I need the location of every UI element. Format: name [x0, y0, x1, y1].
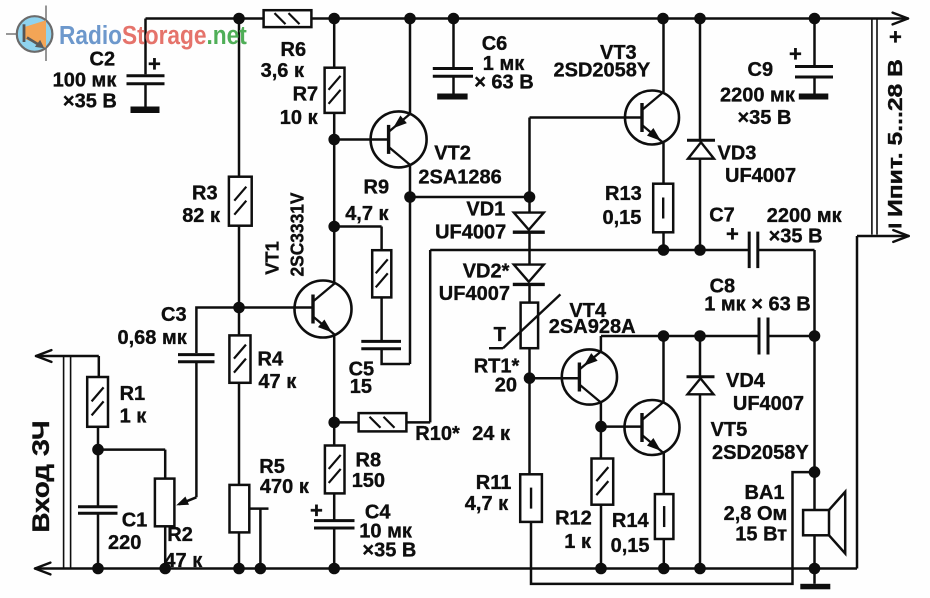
svg-text:+: +: [789, 42, 802, 67]
svg-text:0,68 мк: 0,68 мк: [118, 327, 188, 349]
svg-text:+: +: [726, 222, 739, 247]
svg-text:220: 220: [108, 532, 141, 554]
svg-text:VD1: VD1: [466, 199, 505, 221]
svg-text:150: 150: [352, 470, 385, 492]
svg-text:2SD2058Y: 2SD2058Y: [712, 442, 809, 464]
svg-text:1 мк × 63 В: 1 мк × 63 В: [704, 294, 811, 316]
svg-text:UF4007: UF4007: [435, 222, 506, 244]
svg-text:VT5: VT5: [711, 419, 748, 441]
svg-text:VD3: VD3: [718, 143, 757, 165]
svg-text:UF4007: UF4007: [733, 393, 804, 415]
svg-text:100 мк: 100 мк: [53, 70, 118, 92]
svg-text:VD4: VD4: [726, 370, 766, 392]
svg-text:10 к: 10 к: [280, 107, 319, 129]
svg-text:0,15: 0,15: [603, 207, 642, 229]
svg-text:Т: Т: [494, 324, 506, 346]
svg-text:3,6 к: 3,6 к: [261, 60, 305, 82]
svg-text:VT1: VT1: [262, 241, 283, 275]
svg-text:R12: R12: [555, 508, 592, 530]
svg-text:2SA928A: 2SA928A: [549, 316, 636, 338]
svg-text:×35 В: ×35 В: [769, 226, 823, 248]
svg-text:R8: R8: [356, 450, 382, 472]
svg-text:VD2*: VD2*: [463, 261, 510, 283]
svg-text:4,7 к: 4,7 к: [465, 493, 509, 515]
svg-text:2SD2058Y: 2SD2058Y: [554, 60, 651, 82]
svg-text:15 Вт: 15 Вт: [735, 524, 787, 546]
svg-text:BA1: BA1: [745, 482, 785, 504]
svg-text:Вход ЗЧ: Вход ЗЧ: [28, 421, 55, 533]
svg-text:1 к: 1 к: [120, 406, 148, 428]
svg-text:+: +: [310, 498, 323, 523]
svg-text:82 к: 82 к: [182, 205, 221, 227]
svg-text:R11: R11: [476, 472, 512, 494]
svg-text:Ипит. 5...28 В: Ипит. 5...28 В: [885, 59, 907, 217]
svg-text:C3: C3: [161, 304, 187, 326]
svg-text:R1: R1: [120, 383, 146, 405]
svg-text:20: 20: [495, 375, 517, 397]
svg-text:+: +: [148, 52, 161, 77]
svg-text:R3: R3: [192, 183, 218, 205]
svg-text:C9: C9: [748, 59, 774, 81]
svg-text:4,7 к: 4,7 к: [345, 203, 389, 225]
svg-text:R14: R14: [612, 510, 650, 532]
svg-text:VT2: VT2: [434, 142, 471, 164]
svg-text:×35 В: ×35 В: [63, 90, 117, 112]
svg-text:R2: R2: [167, 524, 193, 546]
svg-text:UF4007: UF4007: [439, 283, 510, 305]
svg-text:2SC3331V: 2SC3331V: [286, 192, 307, 277]
svg-text:R6: R6: [281, 39, 307, 61]
svg-text:R7: R7: [293, 84, 319, 106]
svg-text:R13: R13: [605, 183, 642, 205]
svg-text:R5: R5: [259, 456, 285, 478]
svg-text:C1: C1: [122, 509, 148, 531]
svg-text:0,15: 0,15: [611, 535, 650, 557]
svg-text:× 63 В: × 63 В: [474, 72, 533, 94]
svg-text:47 к: 47 к: [164, 550, 203, 572]
svg-text:×35 В: ×35 В: [738, 107, 792, 129]
svg-text:+: +: [889, 25, 902, 50]
svg-text:24 к: 24 к: [472, 423, 511, 445]
svg-text:R4: R4: [258, 349, 284, 371]
svg-text:47 к: 47 к: [258, 371, 297, 393]
svg-text:RadioStorage.net: RadioStorage.net: [59, 21, 247, 50]
svg-text:2200 мк: 2200 мк: [767, 205, 843, 227]
svg-text:C2: C2: [90, 49, 116, 71]
svg-text:C6: C6: [482, 33, 508, 55]
svg-text:470 к: 470 к: [260, 476, 310, 498]
svg-text:R9: R9: [364, 177, 390, 199]
svg-text:15: 15: [350, 376, 372, 398]
svg-text:R10*: R10*: [415, 423, 460, 445]
svg-text:2,8 Ом: 2,8 Ом: [724, 503, 788, 525]
svg-text:×35 В: ×35 В: [362, 540, 416, 562]
svg-text:UF4007: UF4007: [725, 165, 796, 187]
svg-text:1 к: 1 к: [564, 531, 592, 553]
svg-text:2SA1286: 2SA1286: [418, 167, 501, 189]
svg-text:2200 мк: 2200 мк: [720, 85, 796, 107]
